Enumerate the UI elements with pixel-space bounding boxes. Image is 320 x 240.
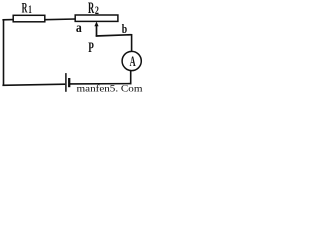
svg-text:2: 2: [95, 5, 99, 17]
svg-text:b: b: [122, 21, 127, 36]
svg-text:R: R: [22, 0, 28, 16]
wire bottom left (battery+ to left rail): [2, 84, 65, 85]
resistor R1: [13, 15, 45, 21]
svg-text:R: R: [88, 0, 95, 17]
svg-text:P: P: [88, 40, 94, 56]
wire slider to right rail: [96, 35, 132, 36]
svg-text:A: A: [130, 54, 136, 70]
label R2: [88, 0, 99, 17]
wire top left (battery+ to R1): [2, 19, 13, 21]
ammeter A: [122, 51, 141, 70]
battery cell: [66, 73, 69, 92]
svg-text:a: a: [76, 21, 82, 36]
svg-text:1: 1: [28, 2, 32, 16]
wire ammeter to bottom: [130, 70, 132, 84]
slider P arrow: [94, 22, 98, 37]
wire bottom right (ammeter to battery-): [69, 83, 131, 85]
svg-text:manfen5. Com: manfen5. Com: [77, 84, 143, 94]
wire R1 to R2: [45, 18, 76, 21]
resistor R2 (rheostat body): [75, 15, 118, 21]
wire left rail: [3, 20, 5, 86]
wire right rail upper (to ammeter): [131, 34, 133, 52]
label R1: [22, 0, 32, 16]
